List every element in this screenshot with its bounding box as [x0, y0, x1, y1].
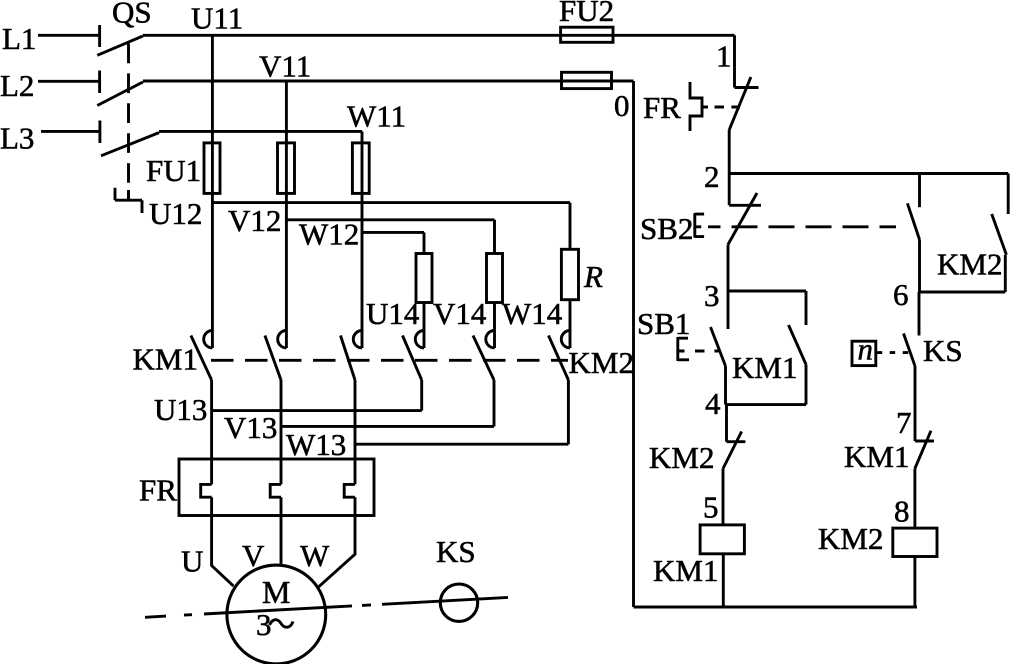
QS pole 2 blade [97, 82, 143, 106]
fuse FU1 pole 3 [352, 143, 369, 194]
wire KM1 aux to node 4 [805, 365, 808, 405]
wire SB1 to node 4 [724, 366, 727, 405]
QS pole 3 fixed contact tick [98, 121, 101, 144]
svg-text:KM1: KM1 [844, 439, 909, 474]
svg-text:M: M [262, 574, 290, 610]
KM2 aux contact wire from node 2 [1007, 174, 1010, 215]
svg-text:U11: U11 [191, 1, 243, 36]
wire contact3 to W13 [354, 380, 357, 484]
svg-text:n: n [858, 332, 874, 367]
svg-text:KM2: KM2 [937, 247, 1002, 282]
QS linkage dashed line [127, 44, 130, 200]
fuse FU1 pole 2 [278, 143, 295, 194]
svg-text:3: 3 [704, 278, 720, 313]
svg-text:SB1: SB1 [637, 306, 690, 341]
svg-text:KS: KS [923, 333, 963, 368]
wire contact1 to U13 [210, 380, 213, 484]
resistor R (U12 to W14) [561, 249, 578, 299]
wire node 6 [920, 291, 1006, 294]
svg-text:U: U [181, 544, 203, 579]
SB2 linkage dashed line [708, 225, 896, 228]
FR NC contact blade [729, 77, 751, 130]
svg-text:W: W [300, 538, 330, 573]
QS operating handle [115, 188, 142, 213]
SB1 linkage dashes [695, 350, 719, 353]
wire SB2 NO to node 6 [918, 240, 921, 293]
svg-text:8: 8 [894, 494, 910, 529]
svg-text:L2: L2 [0, 68, 34, 103]
KM1 aux contact blade [789, 325, 807, 365]
coil KM2 [893, 528, 937, 556]
svg-text:KM2: KM2 [818, 521, 883, 556]
FR heater 1 [201, 484, 212, 497]
KM1-KM2 linkage dashed line [211, 359, 568, 362]
KM2 NC interlock wire [725, 405, 728, 442]
svg-text:V13: V13 [224, 410, 277, 445]
wire L1 input [38, 34, 100, 37]
svg-text:KS: KS [436, 534, 476, 569]
KM2 aux contact blade [992, 214, 1007, 255]
KM2 contact 5 hook [486, 331, 495, 348]
svg-text:W13: W13 [286, 427, 346, 462]
wire coil KM2 to bottom [913, 557, 916, 608]
svg-text:QS: QS [112, 0, 152, 30]
svg-text:KM2: KM2 [569, 345, 634, 380]
fuse FU2 pole 1 [561, 27, 613, 42]
svg-text:4: 4 [705, 386, 721, 421]
svg-text:KM1: KM1 [133, 342, 198, 377]
FR heater 2 [270, 484, 281, 497]
wire SB2 to node 3 [727, 245, 730, 330]
FR heater 3 [344, 484, 355, 497]
SB1 actuator E [678, 337, 689, 361]
wire KM2 aux to node 6 [1004, 255, 1007, 292]
KM2 NC interlock bar [727, 440, 746, 443]
svg-text:U13: U13 [154, 392, 207, 427]
wire W11 [159, 130, 362, 133]
wire U column [211, 35, 214, 348]
KM1 contact 3 blade [341, 336, 356, 381]
svg-text:FU2: FU2 [559, 0, 614, 28]
FR linkage dashes [715, 106, 741, 109]
wire V11 [143, 80, 634, 83]
svg-text:V14: V14 [433, 296, 487, 331]
wire KM1 NC to coil KM2 [913, 469, 916, 529]
svg-text:0: 0 [614, 88, 630, 123]
coil KM1 [700, 525, 744, 554]
button SB2 NC blade [728, 193, 757, 245]
KM1 contact 1 hook [204, 331, 213, 348]
svg-text:7: 7 [896, 405, 912, 440]
KM2 contact 6 hook [561, 331, 570, 348]
QS pole 1 fixed contact tick [98, 25, 101, 47]
KS linkage dashes [877, 351, 910, 354]
KS contact blade [904, 334, 916, 367]
wire U11 [143, 34, 735, 37]
QS pole 1 blade [97, 36, 143, 55]
wire L3 input [41, 130, 100, 133]
svg-text:U12: U12 [149, 196, 202, 231]
KM2 contact 4 blade [403, 336, 422, 381]
svg-text:KM1: KM1 [732, 350, 797, 385]
wire node 2 [729, 172, 1008, 175]
KS speed box n [852, 341, 876, 365]
svg-text:1: 1 [716, 39, 732, 74]
wire node 3 [728, 290, 806, 293]
wire W column [361, 131, 364, 348]
wire contact5 to V13 [493, 380, 496, 426]
wire U13 [212, 409, 422, 412]
wire W12 branch [362, 232, 424, 253]
svg-text:W12: W12 [299, 217, 359, 252]
svg-text:FR: FR [643, 90, 681, 125]
wire contact4 to U13 [420, 380, 423, 411]
svg-text:FR: FR [139, 473, 177, 508]
wire FR3 to motor W [319, 497, 356, 587]
speed switch KS circle [440, 584, 477, 621]
wire FR2 to motor V [280, 497, 283, 565]
svg-text:L1: L1 [2, 21, 36, 56]
wire contact6 to W13 [567, 380, 570, 444]
motor tilde [270, 620, 294, 628]
shaft coupling dash-dot line [145, 597, 508, 617]
motor M circle [227, 565, 326, 664]
SB2 NO contact wire from node 2 [918, 174, 921, 208]
wire coil KM1 to bottom [722, 554, 725, 607]
KM2 contact 5 blade [473, 336, 494, 381]
wire 0 rail [632, 81, 635, 607]
QS pole 3 blade [101, 133, 159, 156]
QS pole 2 fixed contact tick [98, 71, 101, 94]
wire control bottom [634, 606, 918, 609]
KM1 NC interlock blade [915, 431, 931, 469]
fuse FU2 pole 2 [562, 72, 612, 88]
wire KM2 NC to coil KM1 [722, 469, 725, 525]
KM1 contact 3 hook [353, 331, 362, 348]
wire node 4 [726, 403, 807, 406]
KM1 contact 1 blade [191, 336, 212, 381]
resistor 2 (V12 to V14) [487, 254, 503, 303]
fuse FU1 pole 1 [204, 143, 220, 194]
button SB2 NC bar [729, 204, 761, 207]
KM1 aux contact wire from node 3 [805, 291, 808, 325]
svg-text:2: 2 [704, 159, 720, 194]
svg-text:KM2: KM2 [649, 440, 714, 475]
svg-text:V11: V11 [259, 49, 311, 84]
wire below resistor 1 [423, 303, 426, 349]
svg-text:KM1: KM1 [653, 553, 718, 588]
FR NC contact bar [735, 86, 759, 89]
svg-text:5: 5 [703, 490, 719, 525]
KM2 contact 4 hook [415, 331, 424, 348]
KM1 NC interlock bar [915, 440, 934, 443]
wire node 1 drop [733, 35, 736, 87]
svg-text:W14: W14 [502, 296, 563, 331]
KM1 contact 2 hook [278, 331, 287, 348]
wire FR to node 2 [728, 130, 731, 205]
wire V13 [281, 425, 494, 428]
resistor 1 (W12 to U14) [416, 254, 432, 303]
KM2 contact 6 blade [549, 336, 569, 381]
svg-text:W11: W11 [347, 99, 406, 134]
KM1 contact 2 blade [265, 336, 281, 381]
speed switch KS contact wire from node 6 [918, 292, 921, 336]
thermal relay FR box [179, 459, 374, 516]
FR thermal element symbol [690, 82, 708, 131]
wire contact2 to V13 [280, 380, 283, 484]
KM2 NC interlock blade [723, 432, 742, 469]
wire below resistor 2 [493, 303, 496, 349]
SB2 NO contact blade [907, 203, 919, 239]
wire W13 [355, 443, 568, 446]
wire KS to node 7 [914, 366, 917, 441]
wire U12 branch [212, 203, 570, 250]
wire L2 input [38, 80, 100, 83]
svg-text:6: 6 [893, 277, 909, 312]
SB2 actuator E [695, 213, 704, 238]
svg-text:FU1: FU1 [146, 153, 201, 188]
svg-text:R: R [583, 259, 603, 294]
svg-text:V12: V12 [228, 203, 281, 238]
svg-text:SB2: SB2 [640, 211, 693, 246]
svg-text:L3: L3 [0, 121, 34, 156]
wire V column [285, 81, 288, 348]
button SB1 NO blade [711, 327, 726, 366]
wire FR1 to motor U [212, 497, 234, 586]
wire below resistor R [569, 300, 572, 348]
wire V12 branch [286, 220, 494, 254]
svg-text:U14: U14 [366, 296, 420, 331]
